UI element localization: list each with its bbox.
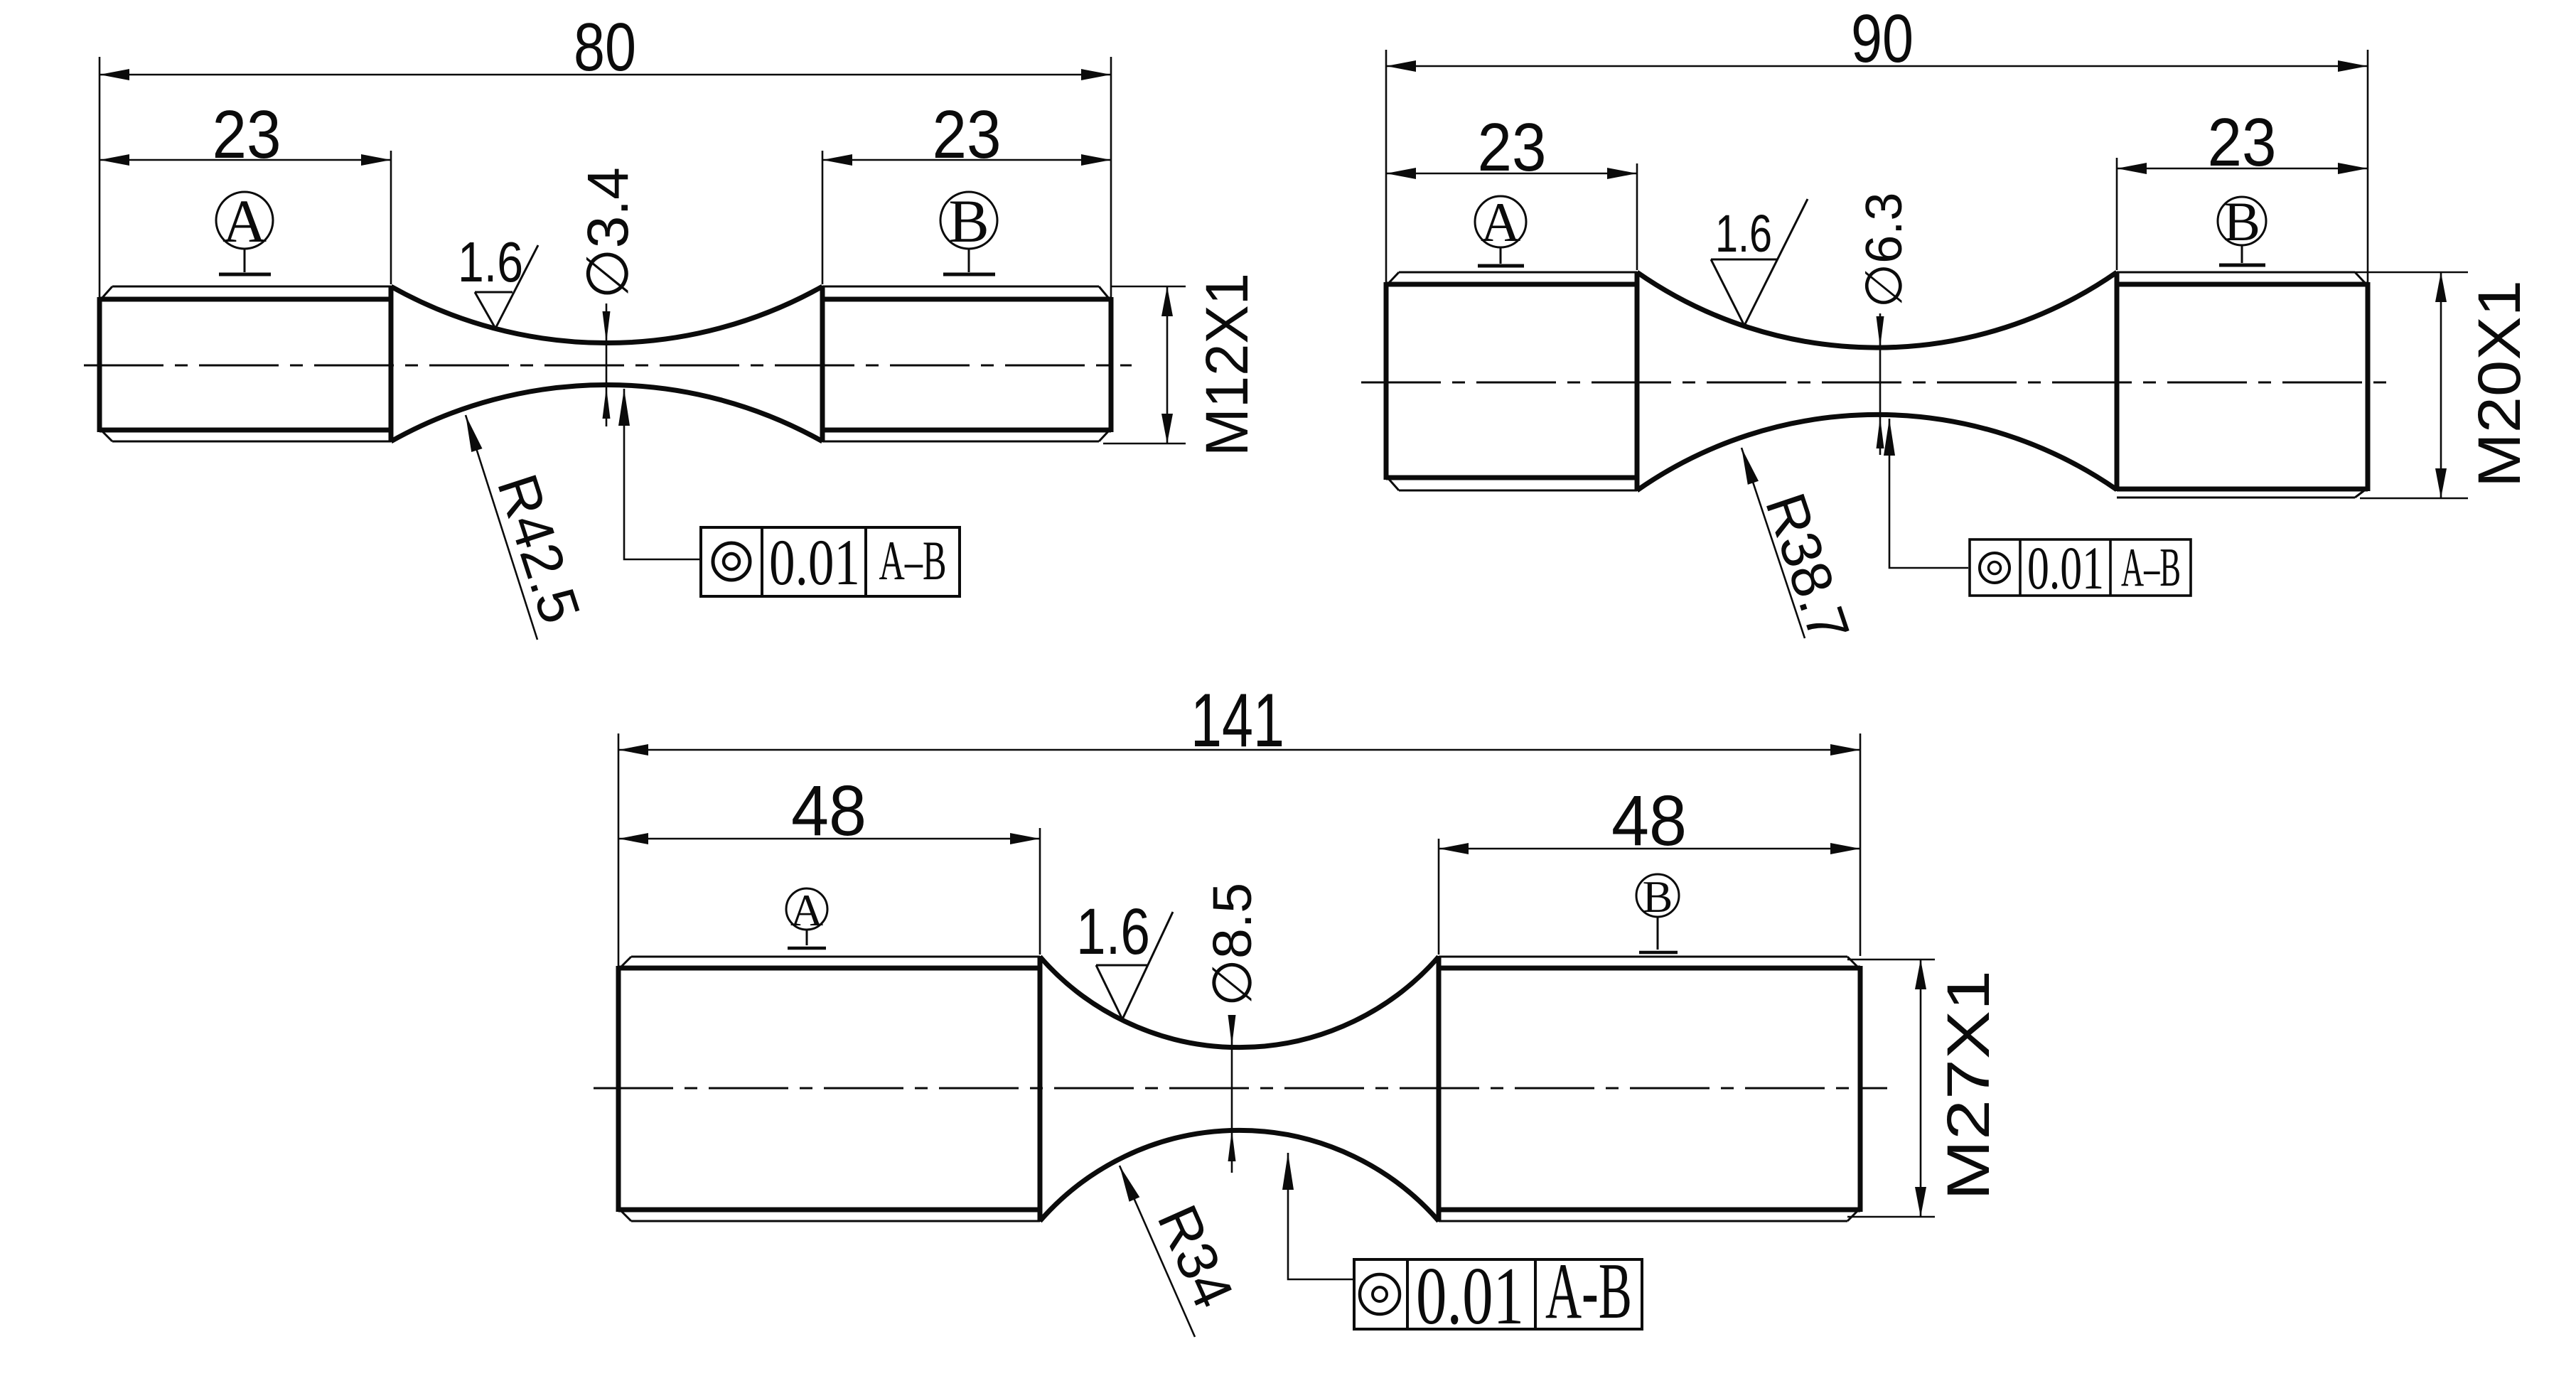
right grip specimen 2 [2117, 272, 2368, 491]
dimension 23 left specimen 2 [1386, 163, 1637, 270]
svg-text:23: 23 [2208, 104, 2277, 181]
svg-text:M27X1: M27X1 [1935, 970, 2002, 1200]
surface roughness symbol 1.6 specimen 1 [475, 245, 538, 328]
svg-text:1.6: 1.6 [1715, 204, 1772, 263]
thread dimension M20X1 specimen 2 [2355, 272, 2468, 498]
left grip specimen 1 [100, 286, 391, 442]
dimension 23 right specimen 2 [2117, 158, 2368, 270]
svg-text:∅3.4: ∅3.4 [576, 167, 640, 299]
svg-text:A: A [790, 885, 823, 935]
concentricity symbol specimen 1 [713, 543, 750, 580]
svg-text:80: 80 [574, 9, 636, 85]
thread dimension M12X1 specimen 1 [1103, 286, 1186, 444]
feature control frame specimen 1 [701, 527, 960, 596]
svg-text:141: 141 [1191, 677, 1284, 763]
svg-text:B: B [948, 187, 989, 255]
svg-text:M20X1: M20X1 [2466, 280, 2533, 488]
svg-text:1.6: 1.6 [1076, 896, 1150, 968]
surface roughness symbol 1.6 specimen 3 [1096, 912, 1173, 1019]
centerline specimen 3 axis [594, 1087, 1887, 1090]
concentricity leader specimen 3 [1288, 1153, 1353, 1279]
svg-text:∅8.5: ∅8.5 [1202, 883, 1263, 1006]
dimension 48 right specimen 3 [1439, 839, 1860, 955]
radius leader R42.5 specimen 1 [466, 415, 537, 640]
svg-text:A–B: A–B [879, 530, 947, 591]
neck reduced section specimen 1 [391, 286, 822, 441]
svg-text:A: A [222, 187, 267, 255]
diameter 6.3 dimension line specimen 2 [1879, 313, 1882, 455]
svg-text:1.6: 1.6 [458, 230, 523, 294]
svg-text:48: 48 [791, 771, 866, 851]
neck reduced section specimen 2 [1637, 272, 2117, 490]
datum target B specimen 3 [1636, 874, 1679, 952]
diameter 8.5 dimension line specimen 3 [1231, 1020, 1233, 1173]
feature control frame specimen 2 [1970, 539, 2191, 596]
svg-text:48: 48 [1611, 781, 1687, 861]
svg-text:23: 23 [1478, 109, 1547, 186]
concentricity symbol specimen 3 [1360, 1274, 1400, 1314]
right grip specimen 1 [822, 286, 1111, 442]
datum target B specimen 2 [2218, 197, 2266, 265]
centerline specimen 2 axis [1361, 382, 2395, 384]
svg-text:A–B: A–B [2121, 537, 2181, 598]
datum target A specimen 3 [786, 888, 827, 948]
dimension 48 left specimen 3 [618, 828, 1040, 955]
dimension 23 left specimen 1 [100, 151, 391, 284]
dimension 141 specimen 3 [618, 733, 1860, 966]
concentricity leader specimen 2 [1889, 419, 1968, 568]
svg-text:23: 23 [213, 97, 281, 173]
feature control frame specimen 3 [1354, 1259, 1642, 1329]
datum target A specimen 2 [1475, 196, 1526, 266]
svg-text:A-B: A-B [1545, 1247, 1632, 1335]
dimension 80 specimen 1 [100, 57, 1111, 297]
dimension 90 specimen 2 [1386, 50, 2368, 282]
svg-text:0.01: 0.01 [1416, 1251, 1524, 1342]
svg-text:A: A [1481, 191, 1520, 253]
left grip specimen 2 [1386, 272, 1637, 491]
svg-text:0.01: 0.01 [769, 526, 860, 598]
datum target B specimen 1 [940, 192, 997, 274]
radius leader R34 specimen 3 [1120, 1166, 1195, 1337]
diameter 3.4 dimension line specimen 1 [606, 303, 608, 426]
svg-text:B: B [2223, 190, 2260, 252]
datum target A specimen 1 [216, 192, 273, 274]
centerline specimen 1 axis [84, 365, 1132, 367]
thread dimension M27X1 specimen 3 [1847, 960, 1935, 1217]
concentricity symbol specimen 2 [1980, 553, 2009, 583]
dimension 23 right specimen 1 [822, 151, 1111, 284]
svg-text:23: 23 [933, 97, 1002, 173]
surface roughness symbol 1.6 specimen 2 [1711, 199, 1808, 326]
svg-text:90: 90 [1851, 1, 1914, 77]
right grip specimen 3 [1439, 956, 1860, 1222]
svg-text:B: B [1643, 871, 1673, 922]
svg-text:0.01: 0.01 [2027, 534, 2104, 602]
left grip specimen 3 [618, 956, 1040, 1222]
svg-text:M12X1: M12X1 [1193, 273, 1260, 456]
radius leader R38.7 specimen 2 [1742, 448, 1805, 638]
neck reduced section specimen 3 [1040, 957, 1439, 1221]
concentricity leader specimen 1 [624, 389, 699, 559]
svg-text:∅6.3: ∅6.3 [1856, 193, 1913, 308]
